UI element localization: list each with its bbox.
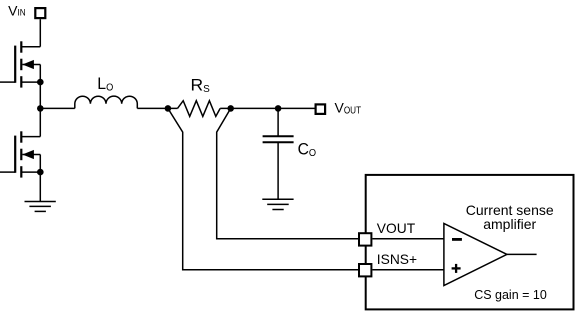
wire Q2 source to ground: [39, 172, 41, 201]
wire VOUT pin to op-amp inverting input: [372, 238, 444, 240]
wire inductor to node A: [137, 107, 177, 109]
ground (CO): [262, 199, 293, 209]
wire node A to ISNS+ pin (diagonal, vertical, horizontal): [168, 108, 358, 269]
wire capacitor to ground: [277, 142, 279, 199]
svg-text:VOUT: VOUT: [377, 221, 416, 236]
capacitor CO: [263, 136, 294, 142]
wire op-amp output: [507, 253, 537, 255]
wire RS to node B: [220, 107, 278, 109]
wire Q1 source to switch node to Q2 drain: [39, 82, 41, 137]
inductor LO: [75, 96, 138, 108]
transistor Q1 (high-side NMOS): [0, 41, 40, 87]
terminal VIN: [35, 8, 45, 18]
node A junction dot (RS left): [165, 105, 172, 112]
svg-text:ISNS+: ISNS+: [377, 252, 417, 267]
wire node C to capacitor: [277, 108, 279, 136]
wire ISNS+ pin to op-amp non-inverting input: [372, 269, 444, 271]
op-amp U1 (current sense amplifier): [444, 223, 507, 285]
wire VIN terminal to Q1 drain: [39, 19, 41, 47]
wire node C to VOUT terminal: [278, 107, 314, 109]
node C junction dot (CO tap): [275, 105, 282, 112]
op-amp plus sign: [452, 264, 461, 273]
terminal VOUT: [316, 104, 326, 114]
svg-text:amplifier: amplifier: [483, 216, 536, 232]
node SW junction dot: [37, 105, 44, 112]
op-amp minus sign: [452, 238, 462, 241]
transistor Q2 (low-side NMOS): [0, 131, 40, 177]
amplifier block box: [366, 175, 574, 310]
junction dot Q1 source/body: [37, 79, 44, 86]
pin VOUT (square): [359, 233, 371, 245]
resistor RS: [178, 101, 221, 117]
wire SW node to inductor: [40, 107, 75, 109]
pin ISNS+ (square): [359, 264, 371, 276]
ground (power stage): [25, 202, 56, 212]
node B junction dot (RS right): [227, 105, 234, 112]
svg-text:CS gain = 10: CS gain = 10: [474, 288, 547, 302]
junction dot Q2 source/body: [37, 169, 44, 176]
wire node B to VOUT pin (diagonal, vertical, horizontal): [217, 108, 358, 238]
